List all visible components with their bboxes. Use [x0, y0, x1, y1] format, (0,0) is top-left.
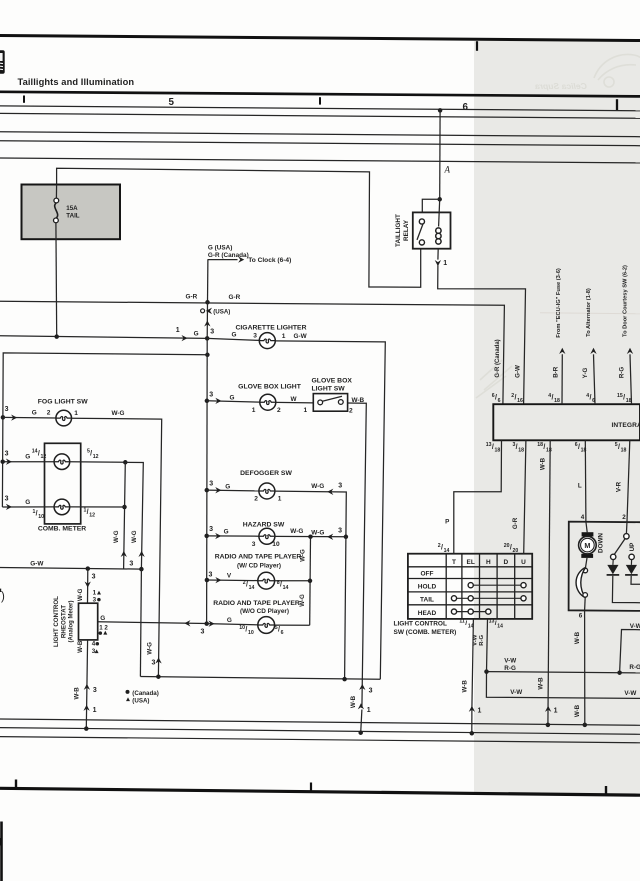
svg-text:10: 10: [239, 625, 245, 631]
wire pin 4/6 Y-G to alternator: [594, 354, 596, 404]
svg-text:3: 3: [201, 629, 205, 636]
svg-text:1: 1: [278, 496, 282, 503]
faint watermark rule: [540, 313, 640, 314]
connector arrow hazard: [215, 533, 221, 539]
comb meter lamp 1: [54, 454, 70, 470]
wire motor to cam: [585, 558, 587, 568]
svg-text:11: 11: [459, 618, 465, 624]
junction on G bus: [205, 353, 210, 358]
svg-text:G-W: G-W: [30, 561, 44, 568]
svg-text:(Analog Meter): (Analog Meter): [68, 600, 74, 642]
junction glove row: [205, 399, 210, 404]
svg-text:G: G: [224, 529, 229, 536]
junction radio1 row: [205, 578, 210, 583]
junction R-G branch: [484, 669, 489, 674]
column ruler line: [0, 92, 640, 97]
ruler tick left: [23, 96, 25, 103]
wire relay coil down: [437, 249, 439, 260]
svg-text:L: L: [578, 483, 582, 490]
svg-text:W-B: W-B: [538, 677, 545, 690]
cigarette lighter lamp: [259, 333, 275, 349]
junction G bus top: [205, 336, 210, 341]
left margin icon: [0, 50, 5, 73]
radio2 lamp: [258, 617, 275, 634]
svg-text:3: 3: [338, 528, 342, 535]
wire G-W horizontal: [0, 568, 141, 570]
svg-text:15: 15: [617, 393, 623, 399]
svg-text:3: 3: [209, 571, 213, 578]
wire fuse feed W6: [57, 168, 421, 287]
light control rheostat box: [79, 603, 98, 640]
relay feed junction: [437, 197, 442, 202]
wire pin 18/18 W-B to ground: [548, 440, 550, 725]
svg-text:(W/O CD Player): (W/O CD Player): [240, 608, 289, 615]
connector arrow 3 on glove drop: [359, 684, 365, 690]
svg-text:20: 20: [513, 548, 519, 554]
svg-text:4: 4: [581, 514, 585, 521]
svg-text:W-G: W-G: [299, 594, 306, 607]
svg-text:2: 2: [277, 407, 281, 414]
table HOLD contacts: [473, 584, 521, 586]
connector arrow 3: [84, 684, 90, 690]
connector arrow left hazard: [327, 534, 333, 540]
cam crescent: [576, 567, 586, 598]
taillight relay box: [413, 212, 451, 248]
ruler tick middle: [319, 97, 321, 104]
svg-text:SW (COMB. METER): SW (COMB. METER): [394, 629, 457, 636]
sub-box outline: [569, 522, 640, 611]
svg-text:1: 1: [252, 407, 256, 414]
diode down: [612, 560, 614, 565]
svg-text:3: 3: [5, 496, 9, 503]
svg-text:20: 20: [504, 543, 510, 549]
svg-text:W-G: W-G: [311, 529, 324, 536]
wire switch to W-B drop: [348, 403, 367, 708]
svg-text:6: 6: [281, 630, 284, 636]
svg-text:A: A: [444, 165, 451, 175]
wire W-G tie down: [345, 537, 346, 679]
wire W1 junction to relay: [438, 108, 443, 113]
svg-text:Celica Supra: Celica Supra: [535, 81, 587, 91]
wire G-R horizontal: [0, 301, 504, 404]
up/down switch common: [624, 534, 629, 539]
switch contact up: [629, 554, 634, 559]
svg-text:LIGHT CONTROL: LIGHT CONTROL: [394, 621, 447, 628]
connector arrow vertical2: [138, 551, 144, 557]
wire pin 3/18 G-R to table U: [524, 440, 526, 553]
table HEAD contacts: [457, 611, 486, 613]
glove box switch contacts: [318, 400, 323, 405]
svg-text:2: 2: [622, 514, 626, 521]
svg-text:18: 18: [554, 398, 560, 404]
wire junction to relay coil: [439, 199, 440, 226]
comb meter lamp 2: [54, 499, 70, 515]
svg-text:INTEGRATION RELAY: INTEGRATION RELAY: [612, 422, 640, 429]
svg-text:18: 18: [626, 398, 632, 404]
svg-text:RELAY: RELAY: [403, 219, 410, 241]
marker circle USA splice: [201, 309, 205, 313]
svg-text:10: 10: [38, 514, 44, 520]
svg-text:EL: EL: [467, 559, 475, 566]
svg-text:3: 3: [209, 526, 213, 533]
watermark car sketch: [476, 54, 640, 398]
wire pin 4/18 B-R from ECU-IG fuse: [561, 354, 563, 404]
svg-text:3: 3: [253, 333, 257, 340]
svg-text:B-R: B-R: [552, 366, 559, 378]
comb meter box: [45, 443, 81, 524]
svg-text:14: 14: [497, 624, 503, 630]
svg-text:R-G: R-G: [504, 665, 516, 672]
wire table EL V-W / W-B to ground: [472, 619, 474, 708]
junction radio1 W-G: [308, 579, 313, 584]
wire fuse to G feed: [55, 223, 58, 337]
svg-text:To Door Courtesy SW (6-2): To Door Courtesy SW (6-2): [623, 265, 629, 337]
relay contact bottom: [419, 240, 424, 245]
svg-text:HEAD: HEAD: [418, 610, 437, 617]
wire glove row: [207, 401, 260, 402]
junction fuse to G feed: [54, 334, 59, 339]
connector arrow comb row2: [6, 504, 12, 510]
svg-text:G: G: [230, 394, 235, 401]
table column lines: [445, 554, 447, 619]
watermark mirrored Celica Supra text: [535, 81, 587, 91]
svg-text:G: G: [194, 330, 199, 337]
svg-text:2: 2: [47, 410, 51, 417]
svg-text:W-G: W-G: [290, 528, 303, 535]
connector arrow left on defogger wire: [327, 489, 333, 495]
connector arrow pin 1 relay: [435, 260, 441, 266]
glove box lamp: [260, 394, 276, 410]
bus wire W4: [0, 141, 640, 146]
wire V-W line lower: [486, 672, 640, 699]
table row lines: [408, 566, 532, 568]
wire V-W stub right: [620, 630, 640, 673]
grey scan panel background: [474, 41, 640, 794]
svg-text:1 2: 1 2: [99, 625, 108, 632]
junction w-g vertical 1: [123, 460, 128, 465]
svg-text:COMB. METER: COMB. METER: [38, 526, 86, 533]
svg-text:3: 3: [210, 329, 214, 336]
wire cam to pin 6: [584, 597, 587, 610]
svg-text:V-R: V-R: [616, 481, 623, 492]
wire pin 15/18 R-G to door courtesy SW: [630, 354, 632, 404]
table TAIL contacts: [457, 597, 521, 599]
junction pin6 ground: [583, 723, 588, 728]
wire fog row: [3, 416, 56, 419]
junction defogger tie: [342, 677, 347, 682]
wire to cigarette lighter: [207, 338, 259, 340]
svg-text:1: 1: [93, 707, 97, 714]
svg-text:G-R: G-R: [229, 294, 241, 301]
wire R-G line: [487, 672, 640, 673]
junction comb vertical2: [139, 567, 144, 572]
fuse element: [55, 185, 57, 199]
svg-text:G: G: [25, 454, 30, 461]
connector arrow on fog drop: [155, 657, 161, 663]
svg-text:18: 18: [495, 448, 501, 454]
svg-text:1: 1: [367, 707, 371, 714]
wire clock stub down: [207, 259, 209, 302]
connector arrow radio1: [215, 577, 221, 583]
relay contact top: [419, 219, 424, 224]
cam switch contact top: [583, 568, 588, 573]
svg-text:14: 14: [249, 585, 255, 591]
svg-text:18: 18: [518, 448, 524, 454]
fog light SW lamp: [56, 410, 72, 426]
connector arrow 1: [83, 705, 89, 711]
svg-text:V: V: [227, 573, 232, 580]
svg-text:V-W: V-W: [473, 634, 479, 646]
svg-text:10: 10: [248, 630, 254, 636]
svg-text:1: 1: [478, 708, 482, 715]
bottom ruler line: [0, 788, 640, 795]
connector arrow down rheostat feed: [85, 581, 91, 587]
svg-text:V-W: V-W: [510, 689, 522, 696]
svg-text:3: 3: [93, 687, 97, 694]
connector arrow defogger: [215, 487, 221, 493]
junction ground bus glove: [358, 730, 363, 735]
headlight motor M: [582, 532, 594, 536]
wire defogger right: [275, 491, 346, 537]
svg-text:GLOVE BOX LIGHT: GLOVE BOX LIGHT: [238, 383, 302, 390]
svg-text:UP: UP: [629, 543, 636, 552]
junction defogger-hazard tie: [344, 535, 349, 540]
wire G feed from left edge: [0, 336, 207, 339]
wire W-G tie line: [140, 677, 380, 680]
legend USA: [126, 697, 130, 701]
junction rheostat feed: [86, 566, 91, 571]
wire relay coil to G-W: [438, 265, 526, 404]
svg-text:(USA): (USA): [213, 309, 230, 316]
wire diode up out: [631, 576, 640, 585]
svg-text:R-G: R-G: [479, 634, 485, 645]
integration relay box: [493, 404, 640, 440]
wire radio2 right: [275, 624, 310, 626]
svg-text:2: 2: [349, 408, 353, 415]
svg-text:LIGHT CONTROL: LIGHT CONTROL: [53, 596, 60, 647]
svg-text:3: 3: [209, 480, 213, 487]
wire cigarette lighter to G-W drop: [275, 341, 385, 679]
svg-text:To Clock (6-4): To Clock (6-4): [248, 257, 291, 264]
svg-text:): ): [1, 591, 5, 603]
junction V-W to R-G line: [617, 670, 622, 675]
junction hazard W-G drop: [308, 534, 313, 539]
svg-text:W-G: W-G: [131, 530, 138, 543]
svg-text:3: 3: [5, 406, 9, 413]
wire comb row1: [3, 461, 54, 463]
svg-text:16: 16: [517, 398, 523, 404]
bus wire W3: [0, 132, 640, 137]
bottom border line 2: [0, 728, 640, 735]
svg-text:G-R (Canada): G-R (Canada): [208, 252, 249, 259]
wire W-G vertical 1 down: [124, 462, 126, 569]
junction ground bus rheostat: [84, 726, 89, 731]
connector arrow 1 on glove drop: [358, 703, 364, 709]
svg-text:12: 12: [89, 513, 95, 519]
wire G branch to left bus: [2, 353, 207, 507]
junction left bus fog row: [1, 415, 6, 420]
diode up: [630, 560, 632, 565]
legend Canada: [126, 690, 130, 694]
svg-text:CIGARETTE LIGHTER: CIGARETTE LIGHTER: [236, 324, 307, 331]
svg-text:DEFOGGER SW: DEFOGGER SW: [240, 470, 292, 477]
svg-text:RADIO AND TAPE PLAYER: RADIO AND TAPE PLAYER: [213, 600, 300, 607]
svg-text:3: 3: [5, 450, 9, 457]
svg-text:W-B: W-B: [574, 704, 581, 717]
connector arrow vertical1: [121, 551, 127, 557]
svg-text:W-B: W-B: [352, 397, 365, 404]
svg-text:4: 4: [92, 641, 96, 648]
glove box light switch box: [313, 394, 347, 412]
hazard lamp: [259, 528, 275, 544]
svg-text:W-B: W-B: [73, 687, 80, 700]
svg-text:GLOVE BOX: GLOVE BOX: [312, 377, 353, 384]
wire radio2 row: [207, 624, 260, 625]
bottom border line 1: [0, 719, 640, 725]
connector arrow 1 on W-B: [545, 706, 551, 712]
wire glove drop lower: [361, 710, 362, 733]
wire to ground bus: [471, 710, 473, 734]
top border tick: [476, 41, 478, 51]
svg-text:G-R: G-R: [186, 293, 198, 300]
light control SW table box: [408, 554, 532, 619]
svg-text:3: 3: [129, 560, 133, 567]
junction radio2 row: [204, 621, 209, 626]
junction fog drop: [156, 674, 161, 679]
svg-text:(Canada): (Canada): [132, 690, 158, 697]
bottom ruler tick left: [15, 780, 17, 790]
top page border: [0, 36, 640, 41]
radio1 lamp: [258, 572, 275, 589]
svg-text:R-G: R-G: [629, 664, 640, 671]
svg-text:G (USA): G (USA): [208, 244, 233, 251]
wire radio1 right: [275, 580, 310, 582]
svg-text:3: 3: [92, 648, 96, 655]
svg-text:6: 6: [463, 102, 469, 113]
svg-text:R-G: R-G: [619, 367, 626, 379]
svg-text:G-W: G-W: [294, 333, 308, 340]
svg-text:W-B: W-B: [462, 680, 469, 693]
relay switch blade: [417, 224, 423, 240]
wire clock junction down to G row: [206, 302, 208, 338]
svg-text:TAILLIGHT: TAILLIGHT: [395, 214, 402, 247]
wire diode down out: [612, 576, 640, 603]
svg-text:6: 6: [579, 612, 583, 619]
svg-text:Taillights and Illumination: Taillights and Illumination: [18, 77, 135, 87]
svg-text:W-G: W-G: [112, 410, 125, 417]
junction hazard row: [204, 534, 209, 539]
svg-text:10: 10: [272, 541, 280, 548]
svg-text:14: 14: [444, 548, 450, 554]
svg-text:3: 3: [252, 541, 256, 548]
wire rheostat output: [98, 622, 207, 624]
svg-text:1: 1: [74, 410, 78, 417]
wire pin 5/18 V-R to switch: [627, 440, 630, 521]
svg-text:HAZARD SW: HAZARD SW: [243, 522, 285, 529]
svg-text:G-R: G-R: [512, 517, 519, 529]
bottom ruler tick right: [605, 786, 607, 794]
svg-text:W-G: W-G: [77, 588, 84, 601]
connector arrow 1: [469, 706, 475, 712]
junction W-B ground: [546, 723, 551, 728]
svg-text:D: D: [504, 559, 509, 566]
ruler tick right: [616, 99, 618, 110]
svg-text:RADIO AND TAPE PLAYER: RADIO AND TAPE PLAYER: [215, 554, 302, 561]
cam switch contact bottom: [583, 593, 588, 598]
wire comb row2 right: [70, 506, 125, 508]
wire fog SW to W-G drop: [72, 418, 162, 676]
wire into motor: [586, 522, 587, 533]
svg-text:13: 13: [486, 442, 492, 448]
bottom-left page edge mark: [0, 838, 1, 846]
svg-text:12: 12: [93, 454, 99, 460]
svg-text:T: T: [452, 559, 456, 566]
wire hazard drop to radios: [309, 537, 312, 626]
svg-text:FOG LIGHT SW: FOG LIGHT SW: [38, 399, 88, 406]
svg-text:DOWN: DOWN: [597, 533, 604, 553]
switch blade: [614, 539, 625, 555]
svg-text:3: 3: [92, 573, 96, 580]
svg-text:W-B: W-B: [574, 631, 581, 644]
bottom ruler tick middle: [310, 783, 312, 792]
junction left bus row1: [0, 459, 5, 464]
svg-text:6: 6: [498, 398, 501, 404]
svg-text:G: G: [32, 409, 37, 416]
svg-text:3: 3: [369, 688, 373, 695]
defogger lamp: [259, 483, 275, 499]
wire pin 6/18 L to motor: [584, 440, 587, 521]
svg-text:18: 18: [621, 448, 627, 454]
svg-text:RHEOSTAT: RHEOSTAT: [60, 605, 67, 638]
wire comb row2: [2, 506, 54, 508]
wire to clock with arrow: [208, 259, 238, 261]
bus wire W5: [0, 158, 640, 163]
connector arrow fog row: [11, 414, 17, 420]
svg-text:3: 3: [209, 392, 213, 399]
svg-text:2: 2: [254, 496, 258, 503]
svg-text:W-G: W-G: [146, 642, 153, 655]
wire hazard right: [275, 535, 346, 537]
svg-text:18: 18: [537, 442, 543, 448]
svg-text:P: P: [445, 519, 449, 526]
arrow USA marker: [206, 308, 212, 314]
svg-text:14: 14: [32, 449, 38, 455]
wire comb vertical2 down to tie line: [140, 569, 141, 676]
svg-text:(W/ CD Player): (W/ CD Player): [237, 562, 281, 569]
wire hazard row: [207, 535, 259, 537]
junction G-R clock: [205, 300, 210, 305]
connector arrow on G feed: [181, 335, 187, 341]
svg-text:G: G: [232, 332, 237, 339]
wire radio1 row: [207, 579, 258, 582]
svg-text:TAIL: TAIL: [420, 597, 434, 604]
svg-text:1: 1: [554, 708, 558, 715]
glove box switch blade: [322, 396, 342, 401]
svg-text:M: M: [584, 541, 590, 550]
bottom-left page edge box: [0, 822, 3, 881]
junction comb row2 on vertical: [122, 505, 127, 510]
wire defogger row: [207, 489, 259, 492]
connector arrow radio2 right: [208, 621, 214, 627]
bus wire W1: [0, 106, 640, 111]
wire pin 13/18 P to table T: [454, 440, 502, 553]
bus wire W2: [0, 113, 640, 118]
svg-text:W-G: W-G: [113, 530, 120, 543]
svg-text:1: 1: [282, 333, 286, 340]
svg-text:LIGHT SW: LIGHT SW: [312, 385, 346, 392]
connector arrow up on clock wire: [204, 320, 210, 326]
svg-text:To Alternator (1-8): To Alternator (1-8): [586, 288, 592, 337]
